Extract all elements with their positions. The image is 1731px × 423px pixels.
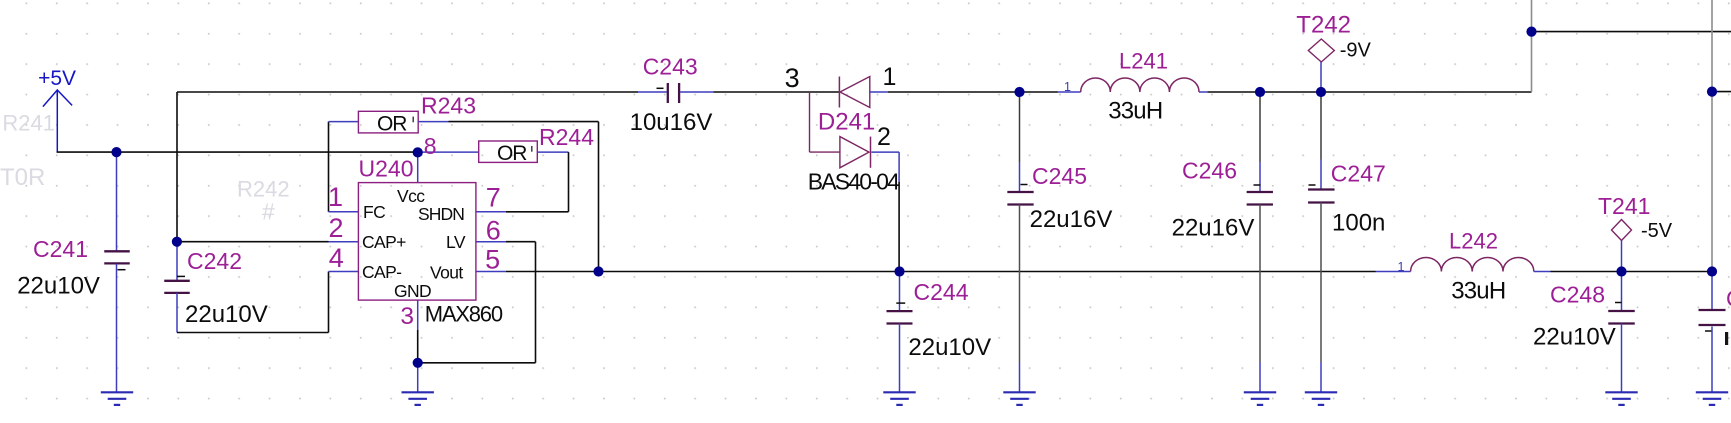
svg-text:22u10V: 22u10V <box>908 334 991 361</box>
svg-text:D241: D241 <box>818 109 875 136</box>
svg-text:LV: LV <box>446 232 466 252</box>
svg-text:CAP-: CAP- <box>362 262 402 282</box>
svg-text:L241: L241 <box>1119 49 1168 74</box>
svg-text:Vcc: Vcc <box>397 186 425 206</box>
svg-text:33uH: 33uH <box>1451 277 1505 304</box>
svg-text:C242: C242 <box>187 248 242 274</box>
svg-text:R244: R244 <box>539 124 594 150</box>
svg-text:1: 1 <box>1398 260 1405 274</box>
svg-text:BAS40-04: BAS40-04 <box>808 169 900 195</box>
svg-text:L242: L242 <box>1449 229 1498 254</box>
svg-text:T241: T241 <box>1598 193 1650 219</box>
svg-text:T242: T242 <box>1296 12 1351 39</box>
svg-text:C244: C244 <box>914 279 969 305</box>
svg-text:C245: C245 <box>1032 163 1087 189</box>
svg-text:U240: U240 <box>359 156 414 182</box>
svg-text:2: 2 <box>328 213 343 243</box>
svg-text:+5V: +5V <box>38 67 76 90</box>
svg-text:10u16V: 10u16V <box>630 109 713 136</box>
svg-text:22u10V: 22u10V <box>185 301 268 328</box>
svg-text:C243: C243 <box>643 54 698 80</box>
svg-text:C2: C2 <box>1726 286 1731 312</box>
svg-text:6: 6 <box>486 216 501 246</box>
svg-text:C246: C246 <box>1182 158 1237 184</box>
svg-text:R241: R241 <box>2 111 55 136</box>
svg-text:OR: OR <box>497 142 527 165</box>
svg-text:1: 1 <box>883 63 897 91</box>
svg-text:3: 3 <box>785 63 800 93</box>
svg-text:C247: C247 <box>1331 161 1386 187</box>
svg-text:5: 5 <box>485 245 500 275</box>
svg-text:-9V: -9V <box>1340 40 1372 62</box>
svg-text:8: 8 <box>424 133 437 159</box>
svg-text:33uH: 33uH <box>1108 98 1162 125</box>
svg-text:22u10V: 22u10V <box>17 272 100 299</box>
svg-text:OR: OR <box>377 113 407 136</box>
svg-text:100n: 100n <box>1332 210 1385 237</box>
svg-text:22u16V: 22u16V <box>1172 215 1255 242</box>
svg-text:2: 2 <box>877 123 891 151</box>
svg-text:T0R: T0R <box>0 164 45 191</box>
svg-text:1: 1 <box>328 182 343 212</box>
svg-text:4: 4 <box>329 243 344 273</box>
svg-text:1: 1 <box>1064 80 1071 94</box>
svg-text:R243: R243 <box>421 93 476 119</box>
svg-text:C248: C248 <box>1550 282 1605 308</box>
svg-text:#: # <box>262 199 275 225</box>
svg-text:C241: C241 <box>33 236 88 262</box>
svg-text:7: 7 <box>486 182 501 212</box>
svg-text:FC: FC <box>363 202 385 222</box>
svg-text:Vout: Vout <box>430 263 463 283</box>
svg-text:22u10V: 22u10V <box>1533 324 1616 351</box>
svg-text:SHDN: SHDN <box>418 204 464 224</box>
svg-text:-5V: -5V <box>1641 220 1673 242</box>
svg-text:MAX860: MAX860 <box>425 301 503 326</box>
svg-text:GND: GND <box>394 281 431 301</box>
svg-text:CAP+: CAP+ <box>362 232 406 252</box>
svg-text:3: 3 <box>400 303 414 330</box>
svg-text:22u16V: 22u16V <box>1030 206 1113 233</box>
